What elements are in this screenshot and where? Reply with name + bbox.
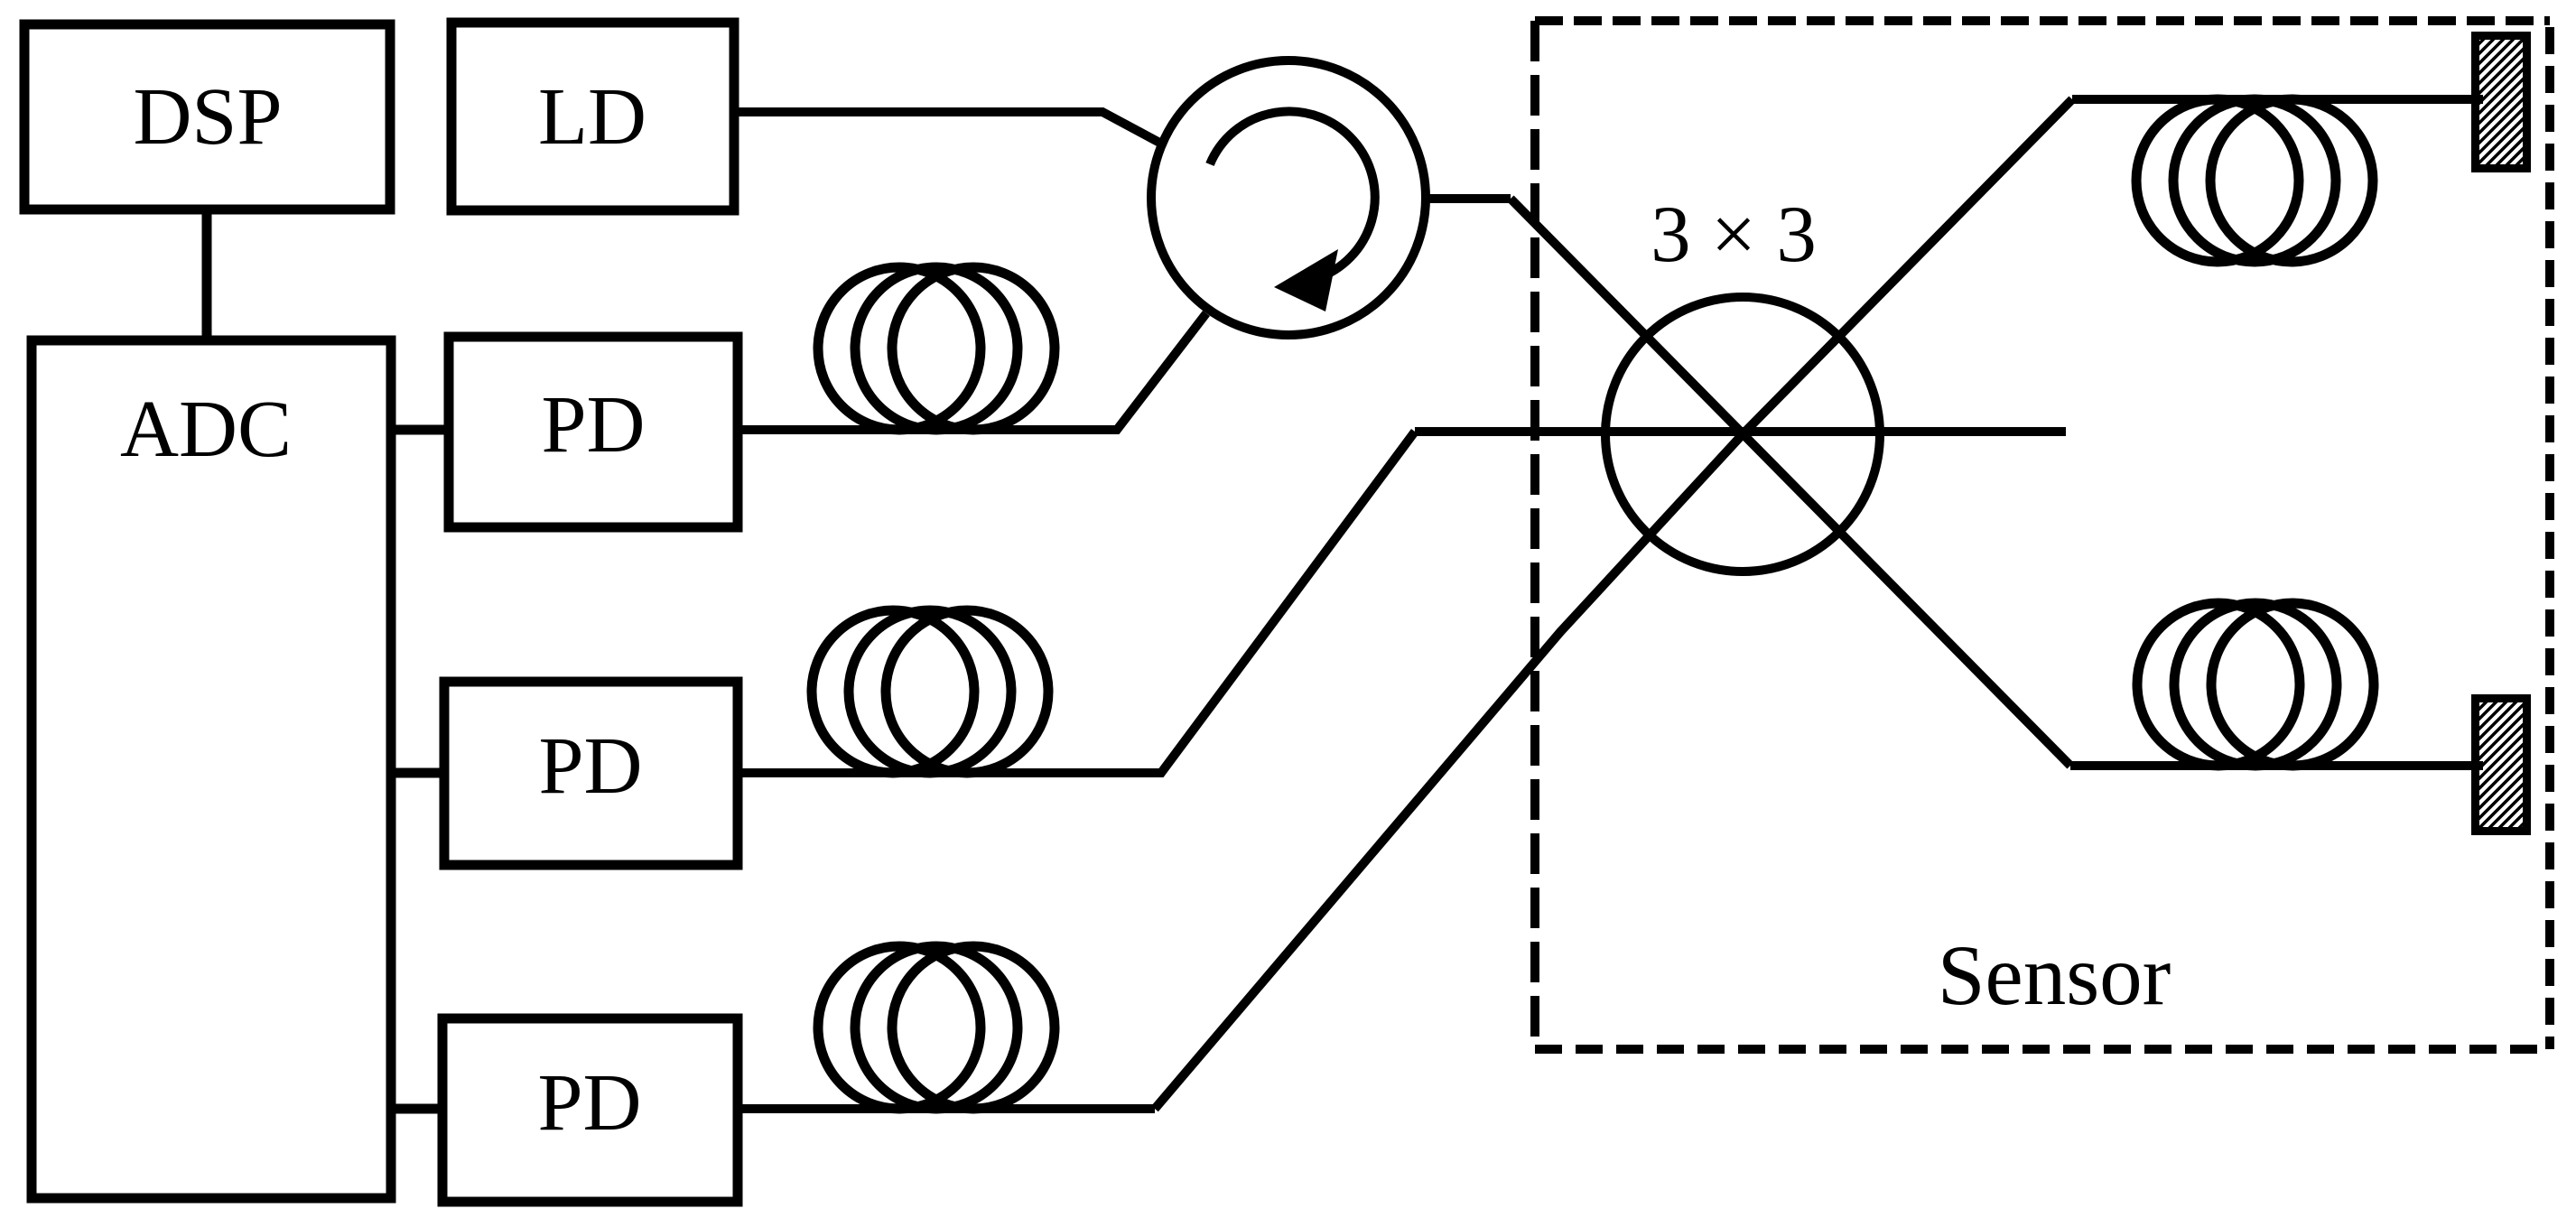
svg-text:PD: PD [538, 721, 642, 811]
wire DSP to ADC [202, 209, 212, 340]
wire PD2 to coupler horizontal [738, 432, 1415, 773]
wire ADC to PD2 [391, 768, 444, 778]
wire upper sensor line to mirror M1 [2072, 95, 2483, 104]
box PD1 [449, 337, 738, 527]
sensor dashed box [1535, 21, 2550, 1049]
wire ADC to PD1 [391, 425, 449, 435]
svg-text:3 × 3: 3 × 3 [1651, 191, 1817, 279]
svg-text:ADC: ADC [120, 385, 292, 474]
box ADC [32, 340, 391, 1198]
svg-text:PD: PD [541, 380, 645, 470]
fiber coil on PD1 line [818, 267, 1055, 430]
fiber coil on PD2 line [812, 610, 1048, 773]
fiber coil upper sensor [2136, 99, 2373, 262]
svg-text:LD: LD [538, 72, 646, 162]
box PD2 [444, 682, 738, 865]
wire diagonal B upper sensor arm to PD3 [1155, 99, 2072, 1109]
wire ADC to PD3 [391, 1104, 442, 1114]
circulator U1 [1151, 60, 1426, 335]
box LD [451, 23, 734, 210]
coupler 3x3 [1605, 191, 1880, 572]
wire horizontal through coupler [1415, 427, 2066, 436]
wire PD3 line [738, 1104, 1155, 1113]
svg-text:Sensor: Sensor [1938, 927, 2171, 1023]
wire circulator right port [1424, 194, 1511, 203]
fiber coil lower sensor [2137, 603, 2374, 766]
mirror M1 (hatched) [2476, 36, 2527, 169]
wire lower sensor line to mirror M2 [2070, 761, 2483, 770]
wire LD to circulator [734, 112, 1165, 145]
wire PD1 to circulator [738, 313, 1206, 430]
svg-text:DSP: DSP [133, 72, 282, 162]
box DSP [24, 24, 390, 209]
fiber coil on PD3 line [818, 946, 1055, 1109]
box PD3 [442, 1018, 738, 1202]
mirror M2 (hatched) [2476, 699, 2527, 832]
wire diagonal A circulator to lower sensor arm [1511, 199, 2070, 766]
svg-text:PD: PD [537, 1058, 641, 1148]
